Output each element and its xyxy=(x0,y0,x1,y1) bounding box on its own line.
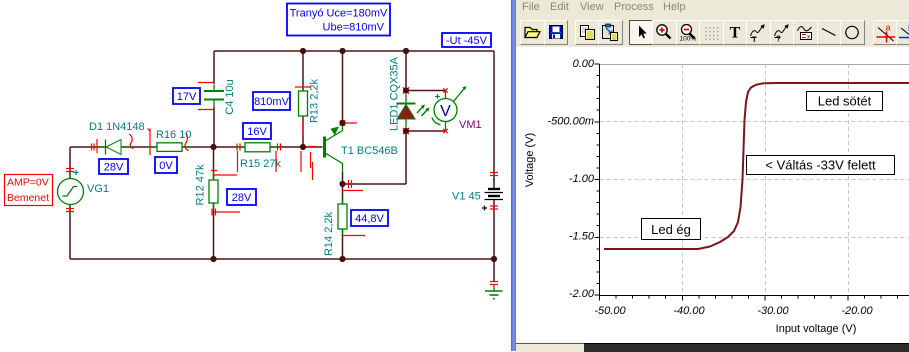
pin markers ground xyxy=(490,282,498,285)
wire VG1 bottom segment xyxy=(69,204,71,260)
svg-text:0V: 0V xyxy=(159,160,173,172)
wire bottom ground rail xyxy=(70,258,494,260)
pin markers LED1 xyxy=(403,87,409,93)
svg-text:AMP=0V: AMP=0V xyxy=(7,177,49,189)
right: diagram window xyxy=(511,0,909,351)
svg-text:LED1 CQX35A: LED1 CQX35A xyxy=(389,56,401,131)
resistor R14 xyxy=(323,198,347,256)
chart axes xyxy=(600,64,909,296)
svg-text:-30.00: -30.00 xyxy=(757,305,789,317)
x axis ticks xyxy=(600,296,898,301)
resistor R13 xyxy=(299,78,321,123)
svg-text:-1.50: -1.50 xyxy=(569,231,595,243)
wire C4 branch upper segment xyxy=(213,51,215,84)
wire VG1 top segment xyxy=(69,147,71,179)
wire collector node y=184 xyxy=(342,172,344,184)
svg-text:-Ut -45V: -Ut -45V xyxy=(446,35,488,47)
svg-text:Tranyó Uce=180mV: Tranyó Uce=180mV xyxy=(290,8,388,20)
svg-text:R15 27k: R15 27k xyxy=(240,158,281,170)
svg-text:810mV: 810mV xyxy=(254,96,290,108)
voltmeter VM1 xyxy=(432,86,482,131)
junction node R13/top rail xyxy=(300,48,306,54)
svg-text:R13 2,2k: R13 2,2k xyxy=(309,78,321,123)
wire input net y=147 xyxy=(70,146,323,148)
y tick labels xyxy=(548,58,595,300)
svg-text:0.00: 0.00 xyxy=(573,58,595,70)
svg-text:Led sötét: Led sötét xyxy=(818,94,872,109)
svg-text:VG1: VG1 xyxy=(87,183,109,195)
pin markers T1 xyxy=(301,147,315,181)
junction node base/R13 xyxy=(300,144,306,150)
svg-text:R12 47k: R12 47k xyxy=(195,164,207,205)
svg-text:-500.00m: -500.00m xyxy=(548,116,594,128)
y axis ticks xyxy=(595,64,600,295)
svg-text:D1 1N4148: D1 1N4148 xyxy=(89,121,145,133)
diode D1 xyxy=(89,121,145,155)
svg-text:V1 45: V1 45 xyxy=(452,191,481,203)
wire R12 column xyxy=(213,147,215,259)
junction node collector/R14 xyxy=(339,181,345,187)
junction node LED/top rail xyxy=(403,48,409,54)
svg-text:T: T xyxy=(729,25,740,42)
value label 810mV xyxy=(253,92,290,110)
curve: LED output voltage vs input xyxy=(604,83,909,249)
svg-text:R16 10: R16 10 xyxy=(156,129,191,141)
value label 28V (input node) xyxy=(99,159,128,174)
junction node input/C4/R12 xyxy=(210,144,216,150)
label Tranyo Uce/Ube xyxy=(287,4,390,36)
svg-text:-1.00: -1.00 xyxy=(569,173,595,185)
svg-text:-50.00: -50.00 xyxy=(594,305,626,317)
value label 17V xyxy=(173,88,200,104)
wire C4 branch lower segment xyxy=(213,107,215,147)
svg-text:< Váltás -33V felett: < Váltás -33V felett xyxy=(765,158,876,173)
value label 16V xyxy=(243,123,271,139)
annotation: Led sotet xyxy=(807,92,883,111)
chart zero line xyxy=(600,64,909,66)
svg-text:Ube=810mV: Ube=810mV xyxy=(323,22,385,34)
wire LED column lower xyxy=(405,131,407,184)
svg-text:Led ég: Led ég xyxy=(651,222,691,237)
svg-text:-2.00: -2.00 xyxy=(569,288,595,300)
junction node emitter pin xyxy=(339,120,345,126)
wire ground stub xyxy=(493,259,495,282)
value label 44,8V xyxy=(351,210,388,226)
svg-text:T1 BC546B: T1 BC546B xyxy=(341,145,398,157)
svg-text:-20.00: -20.00 xyxy=(841,305,873,317)
value label -Ut -45V xyxy=(442,33,491,47)
svg-text:Input voltage (V): Input voltage (V) xyxy=(776,323,857,335)
svg-text:T: T xyxy=(752,36,757,44)
chart gridlines xyxy=(600,64,909,295)
x tick labels xyxy=(594,305,873,317)
pin markers R13 xyxy=(295,87,311,136)
pin markers C4 xyxy=(198,83,214,110)
wire R13 column xyxy=(302,51,304,147)
LED LED1 xyxy=(389,56,430,131)
ground xyxy=(485,284,503,300)
pin markers R12 xyxy=(211,171,240,216)
battery V1 xyxy=(452,179,503,211)
wire VM1 bottom lead xyxy=(406,130,446,132)
junction node R14/ground rail xyxy=(339,256,345,262)
junction node LED anode xyxy=(403,87,409,93)
wire T1 emitter to rail xyxy=(342,51,344,123)
wire top -45V rail xyxy=(214,50,494,52)
svg-text:VM1: VM1 xyxy=(459,119,482,131)
svg-text:44,8V: 44,8V xyxy=(355,213,384,225)
wire VM1 top lead xyxy=(406,90,446,92)
annotation: Valtas xyxy=(747,156,895,175)
value label 0V xyxy=(155,157,177,173)
left: circuit schematic placeholder xyxy=(0,0,511,351)
pin markers VM1 xyxy=(443,88,447,92)
svg-text:R14 2,2k: R14 2,2k xyxy=(323,211,335,256)
pin markers R16 xyxy=(148,129,151,156)
svg-text:?: ? xyxy=(776,35,781,44)
resistor R15 xyxy=(236,143,281,170)
pin markers D1 xyxy=(92,139,98,153)
svg-text:28V: 28V xyxy=(104,162,124,174)
svg-text:-40.00: -40.00 xyxy=(673,305,705,317)
value label 28V (R12) xyxy=(227,189,256,205)
svg-text:100%: 100% xyxy=(679,36,696,43)
label AMP=0V Bemenet xyxy=(5,175,53,206)
junction node T1 emitter/top rail xyxy=(339,48,345,54)
wire battery column lower xyxy=(493,200,495,259)
wire LED column upper xyxy=(405,51,407,91)
resistor R16 xyxy=(146,129,193,151)
junction node LED cathode xyxy=(403,128,409,134)
svg-text:x: x xyxy=(807,35,810,41)
svg-text:V: V xyxy=(440,103,451,120)
svg-text:17V: 17V xyxy=(177,91,197,103)
pin markers VG1 xyxy=(66,169,74,212)
source VG1 xyxy=(58,170,110,208)
pin markers V1 xyxy=(490,173,498,210)
svg-text:C4 10u: C4 10u xyxy=(224,79,236,114)
pin markers R15 xyxy=(237,144,281,173)
resistor R12 xyxy=(195,164,219,211)
svg-text:16V: 16V xyxy=(247,126,267,138)
wire R14 column xyxy=(342,184,344,259)
capacitor C4 xyxy=(204,79,236,114)
svg-text:Bemenet: Bemenet xyxy=(7,192,49,204)
transistor T1 xyxy=(325,123,398,172)
junction node R12/ground rail xyxy=(210,256,216,262)
svg-text:Voltage (V): Voltage (V) xyxy=(524,133,536,187)
svg-text:a: a xyxy=(885,23,890,33)
annotation: Led eg xyxy=(642,219,701,240)
wire battery column upper xyxy=(493,51,495,180)
junction node battery/ground rail xyxy=(491,256,497,262)
svg-text:28V: 28V xyxy=(232,192,252,204)
pin markers R14 xyxy=(344,235,366,237)
